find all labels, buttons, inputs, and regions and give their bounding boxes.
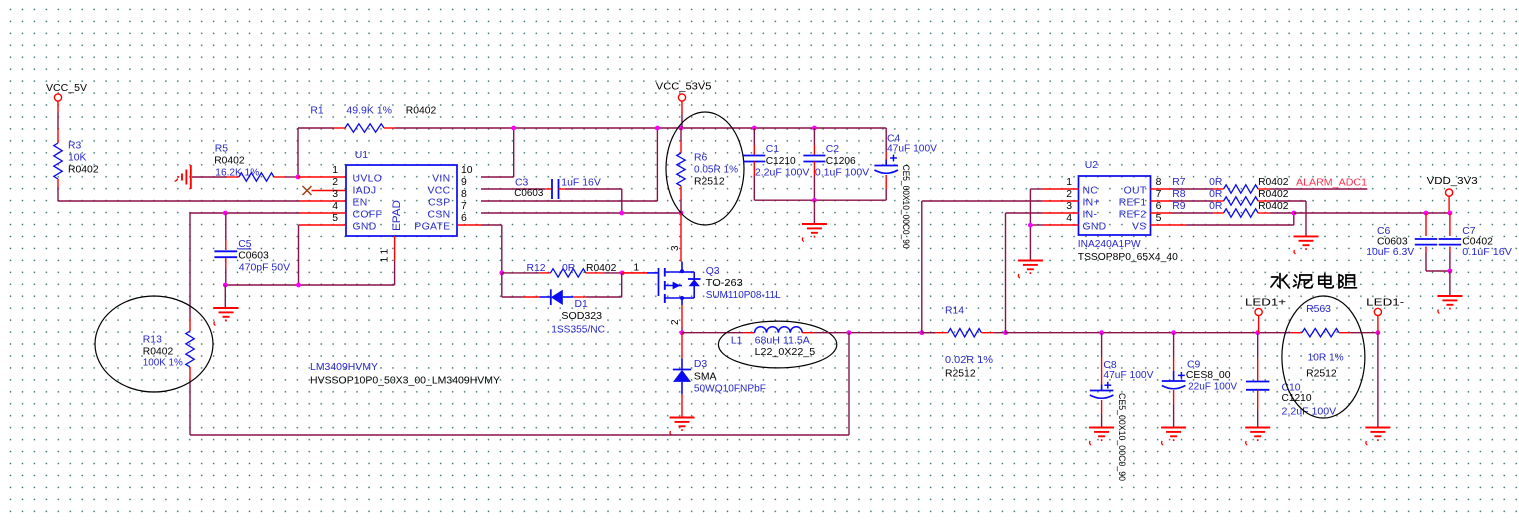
- svg-text:0.1uF 100V: 0.1uF 100V: [815, 168, 869, 179]
- svg-text:0.05R 1%: 0.05R 1%: [694, 165, 738, 176]
- svg-text:OUT: OUT: [1124, 186, 1147, 197]
- svg-text:REF2: REF2: [1119, 210, 1147, 221]
- svg-text:CES8_00: CES8_00: [1186, 370, 1231, 381]
- node R6 top junction: [679, 126, 684, 131]
- svg-text:5: 5: [1156, 213, 1162, 224]
- node C5 bottom junction: [223, 283, 228, 288]
- node CSN/C3 junction: [619, 211, 624, 216]
- svg-text:LM3409HVMY: LM3409HVMY: [310, 362, 378, 373]
- svg-text:0R: 0R: [1209, 201, 1223, 212]
- svg-text:C0603: C0603: [238, 251, 269, 262]
- wire R1 left leg: [297, 128, 299, 177]
- svg-text:50WQ10FNPbF: 50WQ10FNPbF: [694, 384, 766, 395]
- svg-text:VCC_5V: VCC_5V: [46, 83, 87, 94]
- capacitor C3: [481, 178, 622, 213]
- svg-text:R13: R13: [143, 335, 162, 346]
- svg-text:Q3: Q3: [706, 266, 720, 277]
- power port VCC_5V: [46, 83, 87, 129]
- svg-text:D3: D3: [694, 359, 708, 370]
- resistor R3: [54, 129, 99, 187]
- svg-text:8: 8: [461, 189, 467, 200]
- svg-text:PGATE: PGATE: [414, 222, 450, 233]
- svg-text:C3: C3: [515, 178, 529, 189]
- inductor L1: [731, 327, 816, 358]
- svg-text:0R: 0R: [562, 263, 576, 274]
- capacitor C8: [1090, 333, 1154, 481]
- node C2 junction: [812, 126, 817, 131]
- svg-text:470pF 50V: 470pF 50V: [239, 263, 290, 274]
- svg-text:16.2K 1%: 16.2K 1%: [215, 168, 259, 179]
- resistor R14: [922, 305, 1006, 379]
- svg-text:R0402: R0402: [68, 165, 99, 176]
- node VS junction: [1291, 211, 1296, 216]
- svg-text:R0402: R0402: [1258, 177, 1289, 188]
- svg-text:C10: C10: [1282, 383, 1301, 394]
- svg-text:R12: R12: [527, 263, 546, 274]
- node switch-node junction: [680, 330, 685, 335]
- svg-text:R0402: R0402: [1258, 201, 1289, 212]
- capacitor C2: [803, 128, 869, 200]
- wire NC net: [1030, 189, 1078, 261]
- svg-text:22uF 100V: 22uF 100V: [1188, 381, 1237, 392]
- svg-text:EN: EN: [353, 198, 368, 209]
- svg-text:REF1: REF1: [1119, 198, 1147, 209]
- svg-text:0R: 0R: [1209, 177, 1223, 188]
- svg-text:VIN: VIN: [432, 174, 450, 185]
- wire output rail 2: [1006, 332, 1291, 334]
- svg-text:LED1+: LED1+: [1245, 298, 1286, 309]
- svg-text:R1: R1: [310, 106, 324, 117]
- svg-text:R0402: R0402: [143, 347, 174, 358]
- svg-text:D1: D1: [575, 299, 589, 310]
- svg-text:3: 3: [332, 189, 338, 200]
- wire VS net: [1150, 213, 1293, 225]
- resistor R9: [1150, 201, 1293, 217]
- node bottom riser junction: [847, 330, 852, 435]
- svg-text:L22_0X22_5: L22_0X22_5: [755, 347, 816, 358]
- svg-text:11: 11: [380, 246, 391, 263]
- svg-text:49.9K 1%: 49.9K 1%: [346, 106, 392, 117]
- svg-text:1uF 16V: 1uF 16V: [561, 178, 601, 189]
- svg-text:IN+: IN+: [1083, 198, 1100, 209]
- ground C1 C2: [802, 200, 827, 241]
- node C9 junction: [1171, 330, 1176, 335]
- no-connect IADJ: [303, 186, 347, 195]
- svg-text:47uF 100V: 47uF 100V: [1103, 370, 1153, 381]
- svg-text:VS: VS: [1132, 222, 1146, 233]
- ground D3: [670, 418, 695, 436]
- node R12 right junction: [620, 271, 647, 276]
- svg-text:GND: GND: [353, 222, 377, 233]
- svg-text:VCC_53V5: VCC_53V5: [656, 82, 712, 93]
- svg-text:2: 2: [670, 319, 681, 325]
- port LED1+: [1245, 298, 1286, 333]
- svg-text:R0402: R0402: [1258, 189, 1289, 200]
- svg-text:0.1uF 16V: 0.1uF 16V: [1462, 247, 1512, 258]
- svg-text:100K 1%: 100K 1%: [143, 358, 183, 369]
- node C7 top junction: [1448, 211, 1453, 216]
- annotation ellipse L1: [718, 321, 836, 368]
- node LED1- junction: [1376, 330, 1381, 335]
- wire CSP riser: [481, 128, 657, 201]
- node U2 gnd junction: [1028, 223, 1033, 228]
- annotation text cement-resistor: [1271, 274, 1357, 289]
- svg-text:7: 7: [461, 201, 467, 212]
- svg-text:8: 8: [1156, 177, 1162, 188]
- node C8 junction: [1099, 330, 1104, 335]
- op-amp U2 INA240A1PW: [1066, 160, 1161, 235]
- node IN+ junction: [919, 330, 924, 335]
- svg-text:IN-: IN-: [1083, 210, 1098, 221]
- svg-text:R8: R8: [1172, 189, 1186, 200]
- wire output rail: [815, 332, 936, 334]
- annotation ellipse R13: [95, 296, 213, 392]
- svg-text:IADJ: IADJ: [353, 186, 377, 197]
- ground C8: [1089, 428, 1114, 446]
- svg-text:6: 6: [1156, 201, 1162, 212]
- node VIN rail junction: [511, 126, 516, 131]
- resistor R563: [1291, 304, 1378, 380]
- svg-text:CE5_00X10_00C0_90: CE5_00X10_00C0_90: [900, 165, 911, 249]
- wire U2 GND net: [1030, 224, 1078, 226]
- svg-text:R3: R3: [68, 141, 82, 152]
- power port VCC_53V5: [656, 82, 712, 128]
- annotation ellipse R6: [666, 112, 744, 225]
- ground LED1-: [1365, 333, 1390, 445]
- node C7 bottom junction: [1448, 269, 1453, 274]
- svg-text:CSP: CSP: [428, 198, 450, 209]
- svg-text:R2512: R2512: [945, 369, 976, 380]
- ground R8: [1294, 236, 1319, 254]
- svg-text:10R 1%: 10R 1%: [1308, 353, 1344, 364]
- ground C6 C7: [1437, 271, 1462, 314]
- svg-text:4: 4: [332, 201, 338, 212]
- svg-text:0.02R 1%: 0.02R 1%: [945, 355, 993, 366]
- node C1 junction: [752, 126, 757, 131]
- resistor R5: [192, 144, 298, 182]
- svg-text:C0603: C0603: [514, 188, 543, 199]
- svg-text:C0402: C0402: [1462, 236, 1493, 247]
- node GND leg junction: [296, 283, 301, 288]
- wire IN+ net: [922, 201, 1079, 333]
- capacitor C9: [1162, 333, 1237, 428]
- node IN- junction: [1003, 330, 1008, 335]
- svg-text:C1206: C1206: [826, 156, 856, 167]
- capacitor C4: [874, 134, 937, 249]
- annotation ellipse R563: [1282, 296, 1365, 418]
- svg-text:HVSSOP10P0_50X3_00_LM3409HVMY: HVSSOP10P0_50X3_00_LM3409HVMY: [310, 376, 500, 387]
- svg-text:L1: L1: [731, 335, 743, 346]
- svg-text:R2512: R2512: [694, 177, 725, 188]
- svg-text:47uF 100V: 47uF 100V: [887, 144, 937, 155]
- svg-text:C1210: C1210: [1282, 393, 1312, 404]
- svg-text:R0402: R0402: [214, 156, 245, 167]
- svg-text:0R: 0R: [1209, 189, 1223, 200]
- ground C10: [1245, 428, 1270, 446]
- wire cap bottom rail: [754, 199, 886, 201]
- svg-text:VCC: VCC: [428, 186, 451, 197]
- svg-text:6: 6: [461, 213, 467, 224]
- node CSN/R6 junction: [679, 211, 684, 216]
- svg-text:R5: R5: [215, 144, 229, 155]
- capacitor C10: [1246, 333, 1336, 428]
- svg-text:C2: C2: [826, 144, 840, 155]
- resistor R1: [310, 106, 436, 133]
- ground C5: [214, 285, 239, 326]
- svg-text:2: 2: [1066, 189, 1072, 200]
- svg-text:2.2uF 100V: 2.2uF 100V: [755, 168, 810, 179]
- svg-text:UVLO: UVLO: [353, 174, 383, 185]
- svg-text:R2512: R2512: [1306, 369, 1337, 380]
- net label ALARM_ADC1: [1296, 178, 1367, 189]
- label U1 part: [310, 362, 500, 386]
- svg-text:3: 3: [670, 245, 681, 251]
- wire VIN rail: [298, 128, 886, 152]
- resistor R6: [677, 128, 738, 213]
- svg-text:3: 3: [1066, 201, 1072, 212]
- svg-text:TSSOP8P0_65X4_40: TSSOP8P0_65X4_40: [1078, 252, 1178, 263]
- svg-text:9: 9: [461, 177, 467, 188]
- svg-text:R7: R7: [1172, 177, 1186, 188]
- svg-text:2: 2: [332, 177, 338, 188]
- wire VDD net: [1294, 212, 1450, 214]
- node COFF/C5 junction: [223, 211, 228, 216]
- ground U2: [1018, 261, 1043, 279]
- svg-text:EPAD: EPAD: [391, 200, 403, 231]
- svg-text:NC: NC: [1083, 186, 1099, 197]
- svg-text:5: 5: [332, 213, 338, 224]
- svg-text:10: 10: [461, 165, 473, 176]
- wire bottom rail: [190, 434, 849, 436]
- svg-text:LED1-: LED1-: [1366, 298, 1404, 309]
- svg-text:4: 4: [1066, 213, 1072, 224]
- svg-text:1: 1: [332, 165, 338, 176]
- svg-text:SUM110P08-11L: SUM110P08-11L: [706, 290, 781, 301]
- ground C9: [1161, 428, 1186, 446]
- power port VDD_3V3: [1427, 176, 1479, 213]
- svg-text:CE5_00X10_00C0_90: CE5_00X10_00C0_90: [1116, 393, 1127, 481]
- svg-text:C0603: C0603: [1377, 236, 1408, 247]
- capacitor C6: [1366, 213, 1450, 271]
- svg-text:R563: R563: [1306, 304, 1331, 315]
- wire VIN pin drop: [481, 128, 514, 177]
- wire PGATE net: [457, 225, 502, 273]
- svg-text:C5: C5: [238, 239, 252, 250]
- svg-text:R6: R6: [694, 153, 708, 164]
- node UVLO junction: [296, 175, 346, 180]
- svg-text:GND: GND: [1083, 222, 1107, 233]
- transistor Q3: [622, 213, 781, 333]
- svg-text:10K: 10K: [68, 153, 87, 164]
- node cap-gnd junction: [812, 198, 817, 203]
- svg-text:INA240A1PW: INA240A1PW: [1078, 239, 1141, 250]
- resistor R12: [502, 263, 640, 278]
- svg-text:R9: R9: [1172, 201, 1186, 212]
- node C6 junction: [1424, 211, 1429, 216]
- svg-text:68uH 11.5A: 68uH 11.5A: [755, 335, 810, 346]
- resistor R7: [1150, 177, 1367, 193]
- port LED1-: [1366, 298, 1404, 333]
- wire EN net: [58, 187, 346, 201]
- svg-text:ALARM_ADC1: ALARM_ADC1: [1296, 178, 1367, 189]
- wire GND/EPAD net: [225, 225, 394, 285]
- ground R5: [175, 165, 191, 189]
- node R12 left junction: [499, 271, 504, 276]
- svg-text:C1210: C1210: [766, 156, 796, 167]
- svg-text:SOD323: SOD323: [561, 311, 602, 322]
- svg-text:C9: C9: [1187, 360, 1201, 371]
- svg-text:VDD_3V3: VDD_3V3: [1427, 176, 1479, 187]
- svg-text:C1: C1: [766, 144, 780, 155]
- svg-text:U2: U2: [1085, 160, 1099, 171]
- capacitor C7: [1439, 213, 1512, 271]
- svg-text:SMA: SMA: [694, 371, 717, 382]
- svg-text:R0402: R0402: [586, 263, 617, 274]
- wire IN- net: [1006, 213, 1079, 333]
- node CSP rail junction: [655, 126, 660, 131]
- svg-text:COFF: COFF: [353, 210, 383, 221]
- svg-text:1: 1: [633, 263, 639, 274]
- diode D3: [673, 333, 766, 418]
- svg-text:10uF 6.3V: 10uF 6.3V: [1366, 247, 1414, 258]
- svg-text:R0402: R0402: [406, 106, 437, 117]
- svg-text:7: 7: [1156, 189, 1162, 200]
- svg-text:1SS355/NC: 1SS355/NC: [551, 324, 605, 335]
- diode D1: [502, 273, 622, 335]
- capacitor C1: [743, 128, 809, 200]
- wire switch rail: [682, 332, 732, 334]
- capacitor C5: [214, 213, 290, 285]
- op-amp U1 LM3409HVMY: [332, 150, 473, 263]
- svg-text:R14: R14: [945, 305, 964, 316]
- node LED1+ junction: [1255, 330, 1260, 335]
- wire CSN net: [481, 212, 681, 214]
- wire COFF net: [190, 212, 346, 214]
- resistor R13: [143, 213, 194, 435]
- label U2 part: [1078, 239, 1178, 263]
- svg-text:TO-263: TO-263: [706, 278, 743, 289]
- svg-text:U1: U1: [355, 150, 369, 161]
- svg-text:2.2uF 100V: 2.2uF 100V: [1282, 407, 1337, 418]
- svg-text:1: 1: [1066, 177, 1072, 188]
- svg-text:CSN: CSN: [428, 210, 451, 221]
- resistor R8: [1150, 189, 1306, 237]
